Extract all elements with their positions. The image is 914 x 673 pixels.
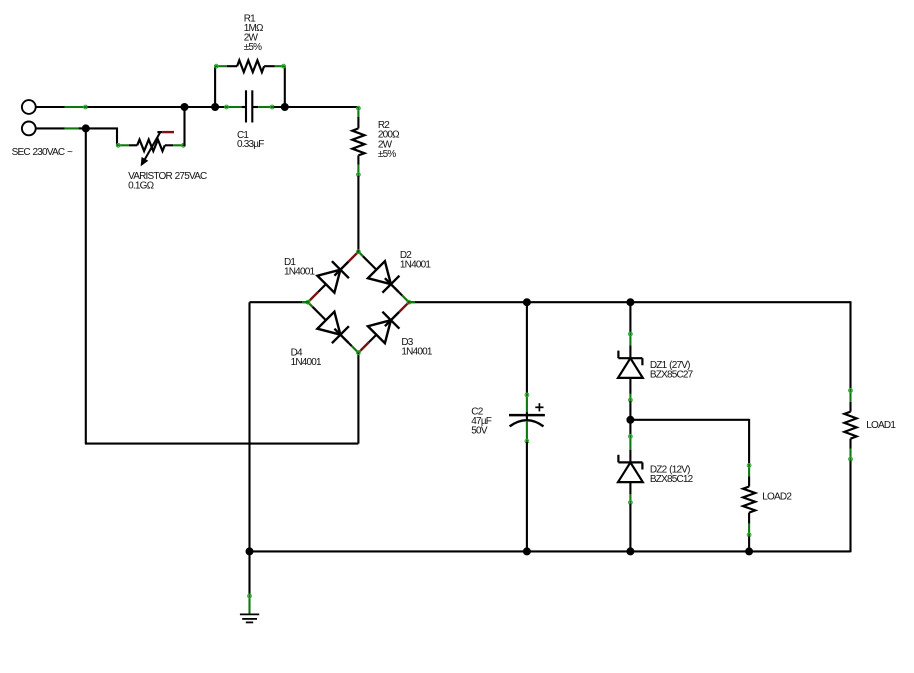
svg-text:1N4001: 1N4001	[400, 260, 431, 271]
svg-text:1N4001: 1N4001	[284, 267, 315, 278]
svg-text:SEC 230VAC ~: SEC 230VAC ~	[12, 147, 73, 158]
svg-text:1N4001: 1N4001	[401, 346, 432, 357]
svg-text:±5%: ±5%	[378, 149, 396, 160]
svg-text:50V: 50V	[471, 426, 488, 437]
svg-text:±5%: ±5%	[244, 42, 262, 53]
svg-text:LOAD2: LOAD2	[762, 491, 792, 502]
svg-text:LOAD1: LOAD1	[866, 420, 896, 431]
svg-text:BZX85C27: BZX85C27	[650, 370, 694, 381]
svg-text:0.33µF: 0.33µF	[237, 139, 264, 150]
svg-text:BZX85C12: BZX85C12	[650, 474, 694, 485]
svg-text:0.1GΩ: 0.1GΩ	[128, 181, 154, 192]
svg-text:1N4001: 1N4001	[291, 357, 322, 368]
